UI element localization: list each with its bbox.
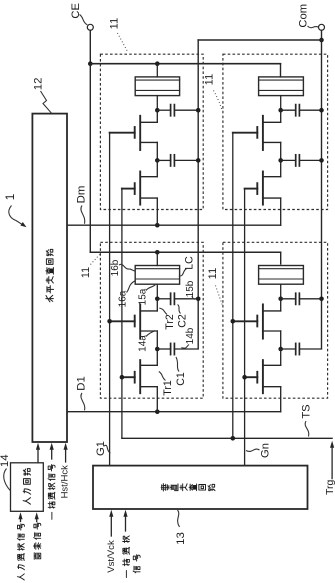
junction C1 on Com rail (top-left) [196, 158, 201, 163]
capacitor C2 (bottom-right) [281, 298, 296, 300]
transistor lower TFT (top-right) [262, 172, 264, 205]
leader 11 top-right [214, 91, 223, 111]
svg-text:15a: 15a [138, 288, 149, 305]
junction CE rail [88, 61, 93, 66]
leader C2 [178, 305, 181, 314]
leader 15a [146, 285, 155, 291]
svg-text:D1: D1 [76, 376, 88, 391]
leader Dm [81, 206, 85, 224]
leader 11 top-left [118, 33, 129, 53]
svg-text:14a: 14a [138, 335, 149, 352]
junction C2 on Com rail (bottom-left) [196, 297, 201, 302]
arrow Vst/Vck to 13 [110, 516, 112, 536]
capacitor C2 (bottom-left) [157, 298, 170, 300]
capacitor C1 (top-left) [157, 159, 170, 161]
arrow Trg input [331, 448, 333, 479]
label input select signal [17, 574, 24, 580]
svg-text:14b: 14b [185, 327, 196, 344]
wire transfer line TS (right riser) [232, 133, 234, 438]
arrow input-select signal to 14 [20, 518, 22, 522]
junction Com [319, 38, 324, 43]
capacitor C1 (bottom-right) [281, 348, 296, 350]
leader arrow 1 [9, 206, 24, 226]
svg-text:11: 11 [204, 74, 216, 86]
leader D1 [81, 393, 85, 410]
svg-text:Tr2: Tr2 [164, 314, 176, 330]
svg-text:11: 11 [207, 268, 219, 280]
horizontal scanning circuit 12 box [32, 114, 67, 442]
label batch select signal (bottom line2) [133, 566, 140, 573]
wire CE rail drop to LC (top-right) [280, 64, 282, 77]
svg-text:12: 12 [32, 78, 44, 91]
node LC bottom-left on CE rail [155, 250, 160, 255]
junction gate lead (bottom-left) upper [107, 319, 112, 324]
leader Tr1 [159, 372, 166, 381]
svg-text:LC: LC [184, 256, 196, 270]
leader Gn [246, 449, 260, 451]
junction gate lead (bottom-right) upper [231, 319, 236, 324]
arrow pixel signal to 14 [36, 518, 38, 522]
svg-text:Vst/Vck: Vst/Vck [106, 540, 117, 573]
LC liquid crystal element (top-right) [259, 77, 304, 96]
wire LC bottom lead (bottom-right) [280, 284, 282, 299]
node pixel electrode (top-right) [278, 108, 283, 113]
terminal Com [319, 24, 325, 30]
node storage (top-left) [155, 158, 160, 163]
svg-text:G1: G1 [95, 441, 107, 456]
leader 15b [192, 296, 196, 299]
input circuit 14 box [11, 463, 44, 512]
arrow batch-select signal to 13 [125, 516, 127, 531]
LC liquid crystal element (top-left) [135, 77, 179, 96]
LC liquid crystal element (bottom-left) [135, 266, 179, 285]
wire LC bottom lead (top-left) [156, 96, 158, 111]
wire LC top lead (bottom-left) [156, 252, 158, 265]
wire data line D1 [67, 411, 281, 413]
node LC top-left on CE rail [155, 61, 160, 66]
wire Com horizontal [198, 39, 321, 41]
leader 14b [181, 345, 189, 349]
junction D1 / pixel output [155, 409, 160, 414]
svg-text:Tr1: Tr1 [162, 380, 174, 396]
leader CE [80, 15, 88, 25]
leader Tr2 [159, 308, 167, 315]
leader 11 bottom-right [216, 286, 224, 308]
arrow batch-select signal to 12 [51, 449, 53, 459]
wire CE vertical [89, 64, 91, 253]
wire CE bottom rail [90, 251, 280, 253]
leader 16a [127, 281, 135, 293]
svg-text:11: 11 [109, 18, 121, 30]
wire CE stem [89, 30, 91, 63]
arrow input-circuit to 12 [37, 449, 39, 463]
junction Dm / pixel output [155, 223, 160, 228]
pixel cell 11 box (top-right) [223, 54, 328, 209]
wire gate line G1 [109, 133, 111, 466]
capacitor C2 (top-left) [157, 109, 170, 111]
transistor lower TFT (bottom-left) [139, 360, 141, 393]
transistor Tr2 upper TFT (top-right) [262, 116, 264, 150]
leader LC [179, 269, 187, 277]
wire Com stem [321, 30, 323, 40]
svg-text:Hst/Hck: Hst/Hck [59, 465, 70, 499]
pixel cell 11 box (bottom-left) [100, 242, 203, 398]
svg-text:14: 14 [0, 454, 11, 467]
node storage (bottom-left) [155, 347, 160, 352]
junction TS right riser [231, 436, 236, 441]
label pixel signal [34, 553, 41, 560]
junction C1 on Com rail (top-right) [319, 158, 324, 163]
junction C2 on Com rail (bottom-right) [319, 297, 324, 302]
label batch select signal (left) [47, 512, 58, 519]
wire LC bottom lead (top-right) [280, 96, 282, 111]
node storage (top-right) [278, 158, 283, 163]
svg-text:Gn: Gn [260, 443, 272, 458]
svg-text:C2: C2 [177, 314, 189, 328]
node pixel electrode (bottom-left) [155, 297, 160, 302]
arrow Hst/Hck to 12 [65, 449, 67, 462]
transistor lower TFT (bottom-right) [262, 360, 264, 393]
wire transfer line TS (horizontal) [122, 437, 332, 439]
leader G1 [104, 445, 111, 453]
leader 14a [146, 331, 155, 337]
svg-text:TS: TS [301, 404, 313, 418]
svg-text:C1: C1 [175, 372, 187, 386]
node storage (bottom-right) [278, 347, 283, 352]
label batch select signal (bottom line1) [121, 570, 132, 577]
node pixel electrode (bottom-right) [278, 297, 283, 302]
pixel cell 11 box (top-left) [100, 54, 203, 209]
capacitor C2 (top-right) [281, 109, 296, 111]
leader 13 [178, 510, 180, 527]
capacitor C1 (bottom-left) [157, 348, 170, 350]
wire gate line Gn [244, 189, 246, 466]
svg-text:Com: Com [298, 4, 310, 28]
leader 14 [4, 469, 10, 491]
leader TS [305, 421, 309, 437]
leader 12 [41, 91, 52, 113]
wire transfer line TS (left riser) [121, 188, 123, 438]
leader C1 [176, 357, 179, 372]
LC liquid crystal element (bottom-right) [259, 266, 304, 285]
wire LC bottom lead (bottom-left) [156, 284, 158, 299]
transistor Tr2 upper TFT (bottom-right) [262, 304, 264, 338]
pixel cell 11 box (bottom-right) [223, 242, 328, 398]
wire Com right rail [321, 40, 323, 349]
wire data line Dm [67, 224, 281, 226]
vertical scanning circuit 13 box [93, 466, 308, 509]
junction C2 on Com rail (top-left) [196, 108, 201, 113]
svg-text:11: 11 [80, 267, 92, 278]
node pixel electrode (top-left) [155, 108, 160, 113]
leader Com [308, 26, 319, 28]
wire Com mid rail [197, 40, 199, 349]
leader 16b [119, 264, 135, 271]
transistor Tr1 upper TFT (top-left) [139, 116, 141, 150]
svg-text:Trg: Trg [324, 479, 335, 495]
junction gate lead (bottom-right) lower [242, 375, 247, 380]
junction gate lead (bottom-left) lower [120, 375, 125, 380]
svg-text:15b: 15b [185, 280, 196, 297]
wire CE top rail [90, 63, 280, 65]
svg-text:CE: CE [70, 3, 82, 19]
wire CE rail drop to LC (bottom-right) [280, 252, 282, 264]
svg-text:Dm: Dm [76, 186, 88, 204]
svg-text:1: 1 [3, 194, 17, 201]
transistor lower TFT (top-left) [139, 172, 141, 205]
terminal CE [87, 24, 93, 30]
svg-text:16b: 16b [110, 259, 121, 276]
svg-text:13: 13 [175, 532, 187, 545]
capacitor C1 (top-right) [281, 159, 296, 161]
junction C2 on Com rail (top-right) [319, 108, 324, 113]
wire LC top lead (top-left) [156, 64, 158, 77]
leader 11 bottom-left [91, 255, 100, 265]
transistor Tr1 upper TFT (bottom-left) [139, 304, 141, 338]
